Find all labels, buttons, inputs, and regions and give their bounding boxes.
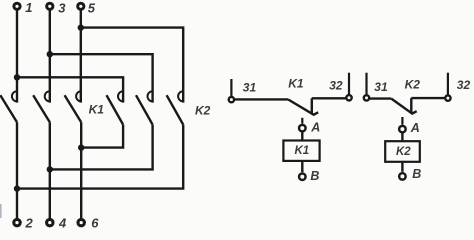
terminal 1 xyxy=(14,0,33,15)
wire contact K2 pole1 to node on terminal 6 line xyxy=(81,125,123,148)
svg-text:32: 32 xyxy=(457,78,471,92)
node dot junction on terminal 1 line xyxy=(14,74,20,80)
wire fixed terminal to terminal 32 xyxy=(312,97,346,99)
terminal 6 xyxy=(78,216,99,231)
svg-text:31: 31 xyxy=(374,80,388,94)
contact K2 pole 3 xyxy=(167,91,184,124)
wire contact K2 pole2 to node on terminal 4 line xyxy=(50,125,153,170)
wire terminal A to coil K2 xyxy=(401,133,403,141)
wire terminal 3 down to contact xyxy=(49,10,51,103)
node dot junction on terminal 3 line xyxy=(47,51,53,57)
contact K2 pole 1 xyxy=(107,91,124,124)
contact K2 pole 2 xyxy=(136,91,153,124)
wire contact K1 pole3 down to terminal 6 xyxy=(80,122,82,218)
contact K2 aux fixed terminal xyxy=(410,98,412,113)
svg-text:1: 1 xyxy=(25,0,32,15)
node dot junction on terminal 6 line xyxy=(78,144,84,150)
terminal 32 (K2 aux circuit) xyxy=(445,73,470,101)
svg-text:A: A xyxy=(410,121,420,135)
wire coil K2 to terminal B xyxy=(401,161,403,172)
node dot junction on terminal 4 line xyxy=(47,166,53,172)
contact K2 aux blade xyxy=(391,99,416,114)
wire terminal 31 to blade xyxy=(370,97,391,99)
wire terminal 1 down to contact xyxy=(16,10,18,103)
terminal 5 xyxy=(78,1,96,16)
node dot junction on terminal 2 line xyxy=(14,185,20,191)
terminal A (coil K1) xyxy=(299,118,320,135)
terminal B (coil K1) xyxy=(299,169,319,183)
wire fixed terminal to terminal 32 xyxy=(411,97,444,99)
wire terminal 5 down to contact xyxy=(80,10,82,103)
terminal 32 (K1 aux circuit) xyxy=(329,73,351,101)
svg-text:32: 32 xyxy=(329,79,343,93)
wire terminal A to coil K1 xyxy=(301,132,303,141)
terminal 2 xyxy=(14,216,34,231)
svg-text:5: 5 xyxy=(88,1,96,16)
terminal 4 xyxy=(47,216,67,231)
wire contact K1 pole2 down to terminal 4 xyxy=(49,122,51,218)
svg-text:K2: K2 xyxy=(195,103,211,117)
svg-text:2: 2 xyxy=(25,216,34,231)
svg-text:K1: K1 xyxy=(89,103,105,117)
svg-text:B: B xyxy=(412,167,421,181)
svg-text:31: 31 xyxy=(243,81,257,95)
terminal 31 (K2 aux circuit) xyxy=(364,73,388,101)
svg-text:K2: K2 xyxy=(396,146,411,158)
svg-text:K1: K1 xyxy=(288,77,304,91)
contact K1 pole 3 xyxy=(65,91,82,122)
wire contact K2 pole3 to node on terminal 2 line xyxy=(17,125,183,189)
svg-text:3: 3 xyxy=(58,1,66,16)
svg-text:K1: K1 xyxy=(295,145,310,157)
svg-text:K2: K2 xyxy=(405,78,421,92)
svg-text:4: 4 xyxy=(58,216,67,231)
contact K1 aux blade xyxy=(288,99,318,114)
terminal A (coil K2) xyxy=(399,117,420,135)
svg-text:B: B xyxy=(310,169,319,183)
wire from terminal 3 to contact K2 phase B xyxy=(50,54,153,102)
wire from terminal 5 to contact K2 phase C xyxy=(81,28,183,103)
coil K2 xyxy=(385,141,420,162)
node dot junction on terminal 5 line xyxy=(78,24,84,30)
terminal B (coil K2) xyxy=(399,167,421,181)
terminal 3 xyxy=(47,1,66,16)
coil K1 xyxy=(283,141,319,161)
contact K1 aux fixed terminal xyxy=(311,98,313,114)
svg-text:A: A xyxy=(310,121,320,135)
scan artifact left edge xyxy=(0,204,2,218)
svg-text:6: 6 xyxy=(91,216,99,231)
terminal 31 (K1 aux circuit) xyxy=(229,79,257,102)
wire contact K1 pole1 down to terminal 2 xyxy=(16,122,18,218)
contact K1 pole 1 xyxy=(0,91,17,122)
wire terminal 31 to blade xyxy=(235,98,288,100)
contact K1 pole 2 xyxy=(33,91,50,122)
wire coil K1 to terminal B xyxy=(301,161,303,172)
wire from terminal 1 to contact K2 phase A xyxy=(17,77,123,102)
